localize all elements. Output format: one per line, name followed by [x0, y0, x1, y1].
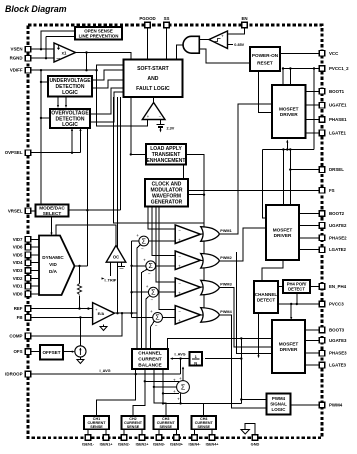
svg-text:PWM4: PWM4	[272, 396, 286, 401]
svg-text:FS: FS	[329, 188, 335, 193]
svg-text:Block Diagram: Block Diagram	[5, 4, 67, 14]
svg-text:DYNAMIC: DYNAMIC	[42, 255, 64, 260]
svg-text:I_AVG: I_AVG	[174, 352, 185, 356]
svg-text:VID0: VID0	[13, 291, 23, 296]
svg-text:+: +	[173, 389, 176, 394]
svg-text:SS: SS	[164, 16, 170, 21]
svg-text:Σ: Σ	[149, 263, 154, 270]
svg-text:VID1: VID1	[13, 284, 23, 289]
svg-text:ISEN1+: ISEN1+	[100, 443, 113, 447]
svg-text:DETECT: DETECT	[257, 297, 276, 302]
svg-text:LGATE1: LGATE1	[329, 130, 347, 135]
svg-text:LOGIC: LOGIC	[62, 122, 78, 128]
svg-text:ISEN1-: ISEN1-	[82, 443, 95, 447]
svg-text:−: −	[141, 247, 144, 252]
svg-text:PWM4: PWM4	[329, 403, 343, 408]
svg-text:+: +	[177, 397, 180, 402]
svg-text:+: +	[178, 237, 181, 242]
svg-text:−: −	[178, 254, 181, 259]
svg-text:I_TRIP: I_TRIP	[105, 279, 117, 283]
svg-text:+: +	[146, 284, 149, 289]
svg-text:+: +	[179, 376, 182, 381]
svg-text:UGATE1: UGATE1	[329, 103, 347, 108]
svg-text:+: +	[173, 377, 176, 382]
svg-text:SENSE: SENSE	[127, 425, 140, 429]
svg-text:N: N	[194, 360, 197, 365]
svg-text:UGATE3: UGATE3	[329, 338, 347, 343]
svg-text:MOSFET: MOSFET	[273, 227, 293, 232]
svg-text:LGATE3: LGATE3	[329, 363, 347, 368]
svg-text:−: −	[178, 228, 181, 233]
svg-text:Σ: Σ	[181, 384, 186, 391]
svg-text:SIGNAL: SIGNAL	[270, 402, 287, 407]
svg-text:VID6: VID6	[13, 245, 23, 250]
svg-text:AND: AND	[147, 76, 158, 82]
svg-text:RESET: RESET	[257, 60, 273, 65]
svg-text:OVPSEL: OVPSEL	[5, 150, 23, 155]
svg-text:SOFT-START: SOFT-START	[137, 66, 169, 72]
svg-text:2.3V: 2.3V	[167, 127, 175, 131]
svg-text:POWER-ON: POWER-ON	[252, 53, 279, 58]
svg-text:+: +	[136, 233, 139, 238]
svg-text:PWM2: PWM2	[220, 256, 231, 260]
svg-text:ISEN2+: ISEN2+	[136, 443, 149, 447]
svg-text:BOOT1: BOOT1	[329, 89, 345, 94]
svg-text:VID5: VID5	[13, 252, 23, 257]
svg-text:+: +	[150, 309, 153, 314]
svg-text:OFS: OFS	[13, 349, 22, 354]
svg-text:LOGIC: LOGIC	[62, 90, 78, 96]
svg-text:VID: VID	[49, 262, 57, 267]
svg-text:Σ: Σ	[142, 238, 147, 245]
svg-text:+: +	[178, 264, 181, 269]
svg-text:CURRENT: CURRENT	[138, 357, 162, 363]
svg-text:ISEN4+: ISEN4+	[206, 443, 219, 447]
svg-text:EN: EN	[241, 16, 247, 21]
svg-text:PWM3: PWM3	[220, 283, 231, 287]
svg-text:PVCC3: PVCC3	[329, 302, 344, 307]
svg-text:+: +	[221, 34, 224, 39]
svg-text:+: +	[143, 258, 146, 263]
svg-text:DRIVER: DRIVER	[274, 233, 292, 238]
svg-text:LOGIC: LOGIC	[272, 407, 287, 412]
svg-text:−: −	[178, 309, 181, 314]
svg-text:OC: OC	[113, 255, 119, 260]
svg-text:+: +	[147, 114, 150, 119]
svg-text:REF: REF	[14, 306, 23, 311]
svg-text:−: −	[150, 298, 153, 303]
svg-text:I_AVG: I_AVG	[99, 369, 110, 373]
svg-text:SENSE: SENSE	[197, 425, 210, 429]
svg-text:EN_PH4: EN_PH4	[329, 284, 347, 289]
svg-text:PGOOD: PGOOD	[139, 16, 155, 21]
svg-text:VID3: VID3	[13, 268, 23, 273]
svg-text:ISEN3+: ISEN3+	[170, 443, 183, 447]
svg-text:VCC: VCC	[329, 51, 339, 56]
svg-text:Σ: Σ	[151, 290, 156, 297]
svg-text:ENHANCEMENT: ENHANCEMENT	[147, 158, 186, 164]
svg-text:VSEN: VSEN	[11, 47, 23, 52]
svg-text:+: +	[178, 318, 181, 323]
svg-text:PWM1: PWM1	[220, 229, 231, 233]
svg-text:DRSEL: DRSEL	[329, 167, 344, 172]
svg-text:PVCC1_2: PVCC1_2	[329, 66, 349, 71]
svg-text:SELECT: SELECT	[43, 211, 62, 216]
svg-text:OFFSET: OFFSET	[42, 350, 60, 355]
svg-text:UGATE2: UGATE2	[329, 223, 347, 228]
svg-text:LGATE2: LGATE2	[329, 247, 347, 252]
svg-text:RGND: RGND	[10, 56, 23, 61]
svg-text:VID2: VID2	[13, 276, 23, 281]
svg-text:PHASE1: PHASE1	[329, 117, 347, 122]
svg-text:SENSE: SENSE	[159, 425, 172, 429]
svg-text:ISEN4-: ISEN4-	[189, 443, 202, 447]
svg-text:MOSFET: MOSFET	[279, 106, 299, 111]
svg-text:ISEN2-: ISEN2-	[118, 443, 131, 447]
svg-text:−: −	[178, 281, 181, 286]
svg-text:IDROOP: IDROOP	[5, 372, 22, 377]
svg-text:VRSEL: VRSEL	[8, 208, 23, 213]
svg-text:FB: FB	[17, 315, 23, 320]
svg-text:PHASE3: PHASE3	[329, 351, 347, 356]
svg-text:PHASE2: PHASE2	[329, 235, 347, 240]
svg-text:DETECT: DETECT	[288, 286, 305, 291]
svg-text:ISEN3-: ISEN3-	[153, 443, 166, 447]
svg-text:BOOT3: BOOT3	[329, 327, 345, 332]
svg-text:SENSE: SENSE	[90, 425, 103, 429]
svg-text:FAULT LOGIC: FAULT LOGIC	[136, 86, 170, 92]
svg-text:MOSFET: MOSFET	[279, 341, 299, 346]
svg-text:+: +	[178, 290, 181, 295]
svg-text:CHANNEL: CHANNEL	[255, 292, 278, 297]
svg-text:−: −	[148, 271, 151, 276]
svg-text:VDIFF: VDIFF	[10, 68, 23, 73]
svg-text:DRIVER: DRIVER	[280, 112, 298, 117]
svg-text:0.85V: 0.85V	[234, 43, 244, 47]
svg-text:VID7: VID7	[13, 237, 23, 242]
svg-text:BOOT2: BOOT2	[329, 211, 345, 216]
svg-text:GND: GND	[251, 442, 260, 447]
svg-text:GENERATOR: GENERATOR	[151, 200, 183, 206]
svg-text:E/A: E/A	[98, 311, 105, 316]
svg-text:D/A: D/A	[49, 269, 58, 274]
svg-text:LINE PREVENTION: LINE PREVENTION	[79, 33, 119, 38]
svg-text:PWM4: PWM4	[220, 310, 232, 314]
svg-text:Σ: Σ	[155, 315, 160, 322]
svg-text:BALANCE: BALANCE	[138, 363, 162, 369]
svg-text:VID4: VID4	[13, 260, 23, 265]
svg-text:x1: x1	[62, 51, 67, 56]
svg-text:COMP: COMP	[9, 333, 22, 338]
svg-text:DRIVER: DRIVER	[280, 347, 298, 352]
svg-text:−: −	[155, 323, 158, 328]
svg-text:CHANNEL: CHANNEL	[138, 351, 162, 357]
